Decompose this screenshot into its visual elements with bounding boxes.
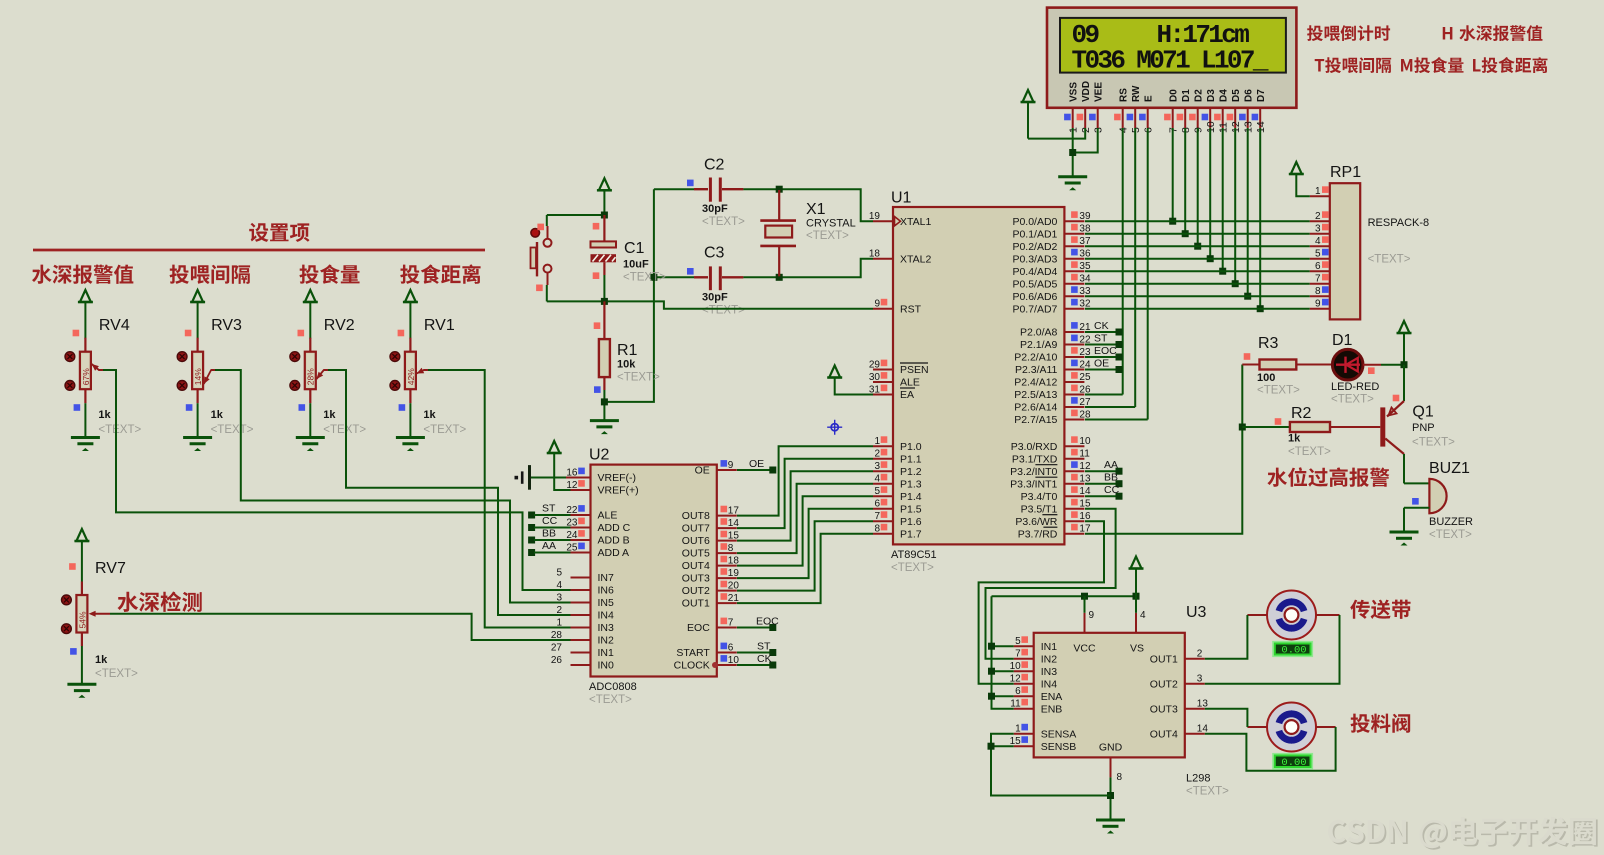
svg-text:ST: ST (1094, 333, 1108, 345)
net terminal ST at U2 (737, 641, 776, 657)
svg-text:<TEXT>: <TEXT> (98, 424, 141, 436)
svg-text:XTAL2: XTAL2 (900, 253, 931, 265)
junction bottom rail (601, 298, 608, 305)
wire P0.2 to RP1 pin 4 (1085, 245, 1310, 247)
svg-text:<TEXT>: <TEXT> (806, 230, 849, 242)
LCD text line 1 (1072, 20, 1250, 50)
svg-text:10: 10 (1079, 436, 1091, 447)
svg-text:P0.2/AD2: P0.2/AD2 (1012, 241, 1057, 253)
svg-text:AT89C51: AT89C51 (891, 549, 937, 561)
net terminal CK at U1 (1085, 320, 1123, 336)
wire P0.4 to RP1 pin 6 (1085, 270, 1310, 272)
buzzer BUZ1 (1404, 460, 1473, 541)
svg-text:RV2: RV2 (324, 317, 355, 334)
LCD display LCD1 body (1047, 8, 1296, 108)
wire VEE to ground (1073, 128, 1098, 153)
U2 pin 12 VREF(+) (566, 480, 638, 497)
LCD pin 5 RW (1127, 85, 1142, 133)
svg-text:11: 11 (1079, 449, 1090, 460)
svg-text:C3: C3 (704, 245, 725, 262)
svg-text:ADD A: ADD A (598, 547, 630, 559)
svg-text:OE: OE (695, 465, 710, 477)
U2 pin 2 IN4 (556, 605, 614, 622)
U3 pin 2 OUT1 (1150, 649, 1205, 666)
U1 pin 26 P2.5/A13 (1014, 385, 1091, 402)
net terminal AA at U2 (528, 540, 570, 556)
svg-text:OUT3: OUT3 (1150, 703, 1178, 715)
net terminal OE at U2 (737, 458, 776, 474)
U3 pin 7 IN2 (1014, 649, 1057, 666)
potentiometer RV3 (177, 290, 254, 451)
net terminal BB at U1 (1085, 472, 1123, 488)
svg-text:D0: D0 (1168, 89, 1179, 102)
U1 pin 18 XTAL2 (869, 249, 932, 266)
svg-text:PSEN: PSEN (900, 364, 929, 376)
push button reset (531, 215, 552, 301)
svg-text:P0.4/AD4: P0.4/AD4 (1012, 266, 1057, 278)
svg-text:5: 5 (1015, 636, 1021, 647)
svg-text:OUT4: OUT4 (1150, 728, 1178, 740)
svg-text:VS: VS (1130, 643, 1144, 655)
LCD pin 8 D1 (1177, 89, 1192, 133)
svg-text:D4: D4 (1218, 89, 1229, 102)
ground under U3 (1096, 820, 1125, 834)
crystal X1 (760, 190, 855, 276)
svg-text:1k: 1k (1288, 433, 1301, 445)
wire C2 C3 common to ground (604, 189, 654, 402)
net terminal EOC at U2 (737, 616, 779, 632)
wire OUT3 to P1.5 (737, 509, 873, 578)
svg-text:P2.6/A14: P2.6/A14 (1014, 402, 1057, 414)
svg-text:9: 9 (1315, 299, 1321, 310)
svg-text:EOC: EOC (687, 622, 710, 634)
svg-text:28%: 28% (306, 368, 316, 385)
svg-text:R3: R3 (1258, 335, 1279, 352)
svg-text:25: 25 (1079, 372, 1091, 383)
svg-text:67%: 67% (81, 368, 91, 385)
U1 pin 3 P1.2 (873, 461, 922, 478)
RP1 pin 2 (1310, 211, 1330, 222)
U2 pin 4 IN6 (556, 580, 614, 597)
feed valve label red (1351, 714, 1411, 733)
U3 pin 14 OUT4 (1150, 724, 1209, 741)
svg-text:ENA: ENA (1041, 691, 1063, 703)
microcontroller U1 AT89C51 body (891, 190, 1064, 545)
svg-text:P2.1/A9: P2.1/A9 (1020, 339, 1058, 351)
svg-text:<TEXT>: <TEXT> (1186, 786, 1229, 798)
potentiometer RV1 (390, 290, 467, 451)
wire LCD D2 to P0.2 bus (1194, 128, 1201, 250)
U1 pin 34 P0.5/AD5 (1012, 274, 1091, 291)
svg-text:8: 8 (874, 524, 880, 535)
U3 pin 9 VCC (1073, 610, 1096, 655)
LCD annotation M legend (1401, 57, 1463, 73)
svg-text:OUT2: OUT2 (682, 585, 710, 597)
net terminal CC at U1 (1085, 484, 1123, 500)
U2 pin 24 ADD B (566, 530, 629, 547)
svg-text:1k: 1k (98, 409, 111, 421)
U2 pin 20 OUT2 (682, 581, 740, 598)
svg-text:RW: RW (1131, 85, 1142, 102)
U3 pin 8 GND (1099, 742, 1123, 784)
svg-text:<TEXT>: <TEXT> (1288, 446, 1331, 458)
svg-text:RESPACK-8: RESPACK-8 (1368, 217, 1430, 229)
U1 pin 28 P2.7/A15 (1014, 410, 1091, 427)
LCD text line 2 (1072, 46, 1269, 76)
water depth sense label (117, 591, 201, 611)
svg-text:VCC: VCC (1073, 643, 1096, 655)
svg-text:IN2: IN2 (598, 635, 615, 647)
wire P0.5 to RP1 pin 7 (1085, 283, 1310, 285)
wire C3 to XTAL2 (743, 259, 873, 278)
display M1 speed (1273, 642, 1312, 657)
svg-text:P1.5: P1.5 (900, 503, 922, 515)
wire P0.0 to RP1 pin 2 (1085, 220, 1310, 222)
svg-text:5: 5 (556, 568, 562, 579)
svg-text:2: 2 (1197, 649, 1203, 660)
svg-text:8: 8 (1117, 772, 1123, 783)
svg-text:D1: D1 (1332, 332, 1353, 349)
svg-text:9: 9 (874, 299, 880, 310)
svg-text:10k: 10k (617, 359, 636, 371)
svg-text:OUT2: OUT2 (1150, 678, 1178, 690)
svg-text:P2.5/A13: P2.5/A13 (1014, 389, 1057, 401)
U3 pin 10 IN3 (1010, 661, 1058, 678)
U1 pin 24 P2.3/A11 (1015, 360, 1091, 377)
U2 pin 9 OE (695, 460, 737, 477)
resistor R3 (1242, 335, 1300, 397)
svg-text:54%: 54% (77, 611, 87, 628)
svg-text:U1: U1 (891, 190, 912, 207)
wire LCD D4 to P0.4 bus (1219, 128, 1226, 275)
svg-text:C2: C2 (704, 157, 725, 174)
RP1 labels (1368, 217, 1430, 266)
svg-text:LED-RED: LED-RED (1331, 381, 1379, 393)
svg-text:OUT3: OUT3 (682, 573, 710, 585)
svg-text:VREF(+): VREF(+) (598, 485, 639, 497)
svg-text:VSS: VSS (1068, 82, 1079, 102)
svg-text:<TEXT>: <TEXT> (1331, 394, 1374, 406)
RP1 pin 3 (1310, 224, 1330, 235)
svg-text:U2: U2 (589, 447, 610, 464)
svg-text:10uF: 10uF (623, 259, 649, 271)
U2 pin 22 ALE (566, 505, 617, 522)
svg-text:P2.3/A11: P2.3/A11 (1015, 364, 1058, 376)
wire D1 to power node (1363, 364, 1404, 366)
wire P0.1 to RP1 pin 3 (1085, 233, 1310, 235)
U2 pin 21 OUT1 (682, 593, 740, 610)
svg-text:START: START (676, 647, 710, 659)
wire OUT8 to P1.0 (737, 446, 873, 515)
net terminal OE at U1 (1085, 358, 1123, 374)
svg-text:P2.4/A12: P2.4/A12 (1014, 377, 1057, 389)
junction GND sense (1107, 792, 1114, 799)
svg-text:8: 8 (728, 543, 734, 554)
svg-text:0.00: 0.00 (1281, 644, 1306, 656)
U1 pin 39 P0.0/AD0 (1012, 211, 1091, 228)
svg-text:E: E (1143, 95, 1154, 102)
svg-text:ADD C: ADD C (598, 522, 631, 534)
svg-text:EOC: EOC (1094, 345, 1117, 357)
U2 pin 17 OUT8 (682, 506, 740, 523)
net terminal AA at U1 (1085, 459, 1123, 475)
junction VS pin (1133, 593, 1140, 613)
svg-text:P0.5/AD5: P0.5/AD5 (1012, 278, 1057, 290)
driver U3 L298 body (1034, 604, 1207, 757)
wire LCD D0 to P0.0 bus (1169, 128, 1176, 225)
power arrow Q1 emitter (1397, 321, 1412, 365)
wire VCC rail to U3 (992, 595, 1137, 597)
U1 pin 15 P3.5/T1 (1021, 499, 1091, 516)
svg-text:OUT6: OUT6 (682, 535, 710, 547)
U2 pin 25 ADD A (566, 543, 629, 560)
svg-text:Q1: Q1 (1412, 404, 1433, 421)
conveyor label red (1350, 600, 1410, 619)
wire VSS to ground (1072, 128, 1074, 177)
svg-text:RV3: RV3 (211, 317, 242, 334)
wire RV4 to IN6 (98, 370, 570, 590)
wire P3.7 to alarm circuit (1085, 365, 1242, 534)
wire U3 GND to ground (1110, 777, 1112, 820)
svg-text:P1.4: P1.4 (900, 491, 922, 503)
svg-text:<TEXT>: <TEXT> (95, 668, 138, 680)
svg-text:<TEXT>: <TEXT> (702, 305, 745, 317)
svg-text:SENSA: SENSA (1041, 728, 1077, 740)
svg-text:IN2: IN2 (1041, 653, 1058, 665)
svg-text:XTAL1: XTAL1 (900, 216, 931, 228)
LCD annotation L legend (1473, 57, 1547, 73)
power arrow VREF+ (547, 441, 571, 490)
svg-text:1k: 1k (211, 409, 224, 421)
svg-text:100: 100 (1257, 372, 1275, 384)
U1 pin 16 P3.6/WR (1015, 511, 1091, 528)
wire P2.6 to LCD RW (1085, 406, 1135, 408)
U2 pin 16 VREF(-) (566, 468, 636, 485)
svg-text:CRYSTAL: CRYSTAL (806, 218, 856, 230)
wire OUT1 to P1.7 (737, 534, 873, 603)
U1 pin 19 XTAL1 (869, 211, 932, 228)
svg-text:D2: D2 (1193, 89, 1204, 102)
svg-text:27: 27 (551, 643, 563, 654)
svg-text:4: 4 (874, 474, 880, 485)
svg-text:BB: BB (1104, 472, 1118, 484)
U2 pin 3 IN5 (556, 593, 614, 610)
capacitor C3 (655, 245, 745, 317)
wire LCD E to U1 P2.7 (1147, 128, 1149, 420)
U1 pin 37 P0.2/AD2 (1012, 236, 1091, 253)
svg-text:P1.2: P1.2 (900, 466, 922, 478)
svg-text:ALE: ALE (598, 510, 618, 522)
LCD annotation T legend (1315, 57, 1391, 73)
wire OUT2 to P1.6 (737, 521, 873, 590)
svg-text:4: 4 (1140, 610, 1146, 621)
LCD pin 3 VEE (1089, 82, 1104, 133)
svg-text:9: 9 (1089, 610, 1095, 621)
svg-text:<TEXT>: <TEXT> (1257, 385, 1300, 397)
LCD annotation H legend (1443, 25, 1543, 41)
svg-text:RV7: RV7 (95, 560, 126, 577)
U2 labels (589, 681, 637, 706)
U3 pin 11 ENB (1010, 699, 1062, 716)
svg-text:C1: C1 (624, 240, 645, 257)
svg-text:OUT8: OUT8 (682, 510, 710, 522)
svg-text:3: 3 (874, 461, 880, 472)
LCD pin 11 D4 (1214, 89, 1229, 133)
U1 pin 13 P3.3/INT1 (1010, 474, 1091, 491)
svg-text:<TEXT>: <TEXT> (617, 372, 660, 384)
svg-text:VEE: VEE (1093, 82, 1104, 102)
wire LCD RW to U1 P2.6 (1134, 128, 1136, 407)
U1 pin 9 RST (873, 299, 922, 316)
U2 pin 28 IN2 (551, 630, 614, 647)
wire LCD D5 to P0.5 bus (1232, 128, 1239, 287)
svg-text:VREF(-): VREF(-) (598, 472, 637, 484)
svg-text:AA: AA (542, 540, 556, 552)
net terminal CK at U2 (737, 653, 776, 669)
svg-text:<TEXT>: <TEXT> (1429, 529, 1472, 541)
svg-text:8: 8 (1315, 286, 1321, 297)
svg-text:1: 1 (1015, 724, 1021, 735)
LED D1 (1296, 332, 1379, 406)
svg-text:P0.1/AD1: P0.1/AD1 (1012, 228, 1057, 240)
svg-text:OUT1: OUT1 (1150, 653, 1178, 665)
svg-text:P1.3: P1.3 (900, 478, 922, 490)
svg-text:BB: BB (542, 528, 556, 540)
power arrow for LCD VDD (1021, 90, 1036, 139)
column label water depth alarm (32, 265, 133, 284)
junction VCC pin (1081, 593, 1088, 613)
svg-text:7: 7 (1015, 649, 1021, 660)
power arrow U3 (1129, 557, 1144, 597)
svg-text:SENSB: SENSB (1041, 741, 1077, 753)
svg-text:<TEXT>: <TEXT> (423, 424, 466, 436)
svg-text:7: 7 (1315, 274, 1321, 285)
wire LCD RS to U1 P2.5 (1122, 128, 1124, 395)
wire RV7 to IN2 water sense (89, 611, 571, 640)
svg-text:30pF: 30pF (702, 203, 728, 215)
svg-text:7: 7 (728, 618, 734, 629)
svg-text:R1: R1 (617, 342, 638, 359)
transistor Q1 PNP (1380, 365, 1455, 484)
U1 pin 21 P2.0/A8 (1020, 322, 1091, 339)
motor feed valve M2 (1247, 703, 1335, 752)
svg-text:P3.3/INT1: P3.3/INT1 (1010, 478, 1057, 490)
U1 pin 5 P1.4 (873, 486, 922, 503)
ADC U2 ADC0808 body (589, 447, 717, 677)
ground under LCD (1058, 177, 1087, 191)
svg-text:3: 3 (1315, 224, 1321, 235)
svg-text:14%: 14% (193, 368, 203, 385)
wire P0.3 to RP1 pin 5 (1085, 258, 1310, 260)
net terminal ST at U1 (1085, 333, 1123, 349)
U1 pin 4 P1.3 (873, 474, 922, 491)
svg-text:6: 6 (874, 499, 880, 510)
alarm label red (1267, 467, 1389, 487)
U2 pin 15 OUT6 (682, 531, 740, 548)
svg-text:D1: D1 (1181, 89, 1192, 102)
svg-text:6: 6 (728, 643, 734, 654)
svg-text:26: 26 (551, 655, 563, 666)
U1 pin 2 P1.1 (873, 449, 922, 466)
svg-text:IN6: IN6 (598, 585, 615, 597)
svg-text:IN1: IN1 (598, 647, 615, 659)
svg-text:2: 2 (1315, 211, 1321, 222)
svg-text:7: 7 (874, 511, 880, 522)
svg-text:R2: R2 (1291, 405, 1312, 422)
svg-text:P1.6: P1.6 (900, 516, 922, 528)
svg-text:EA: EA (900, 389, 914, 401)
resistor pack RP1 RESPACK-8 body (1330, 164, 1361, 319)
svg-text:2: 2 (874, 449, 880, 460)
junction C3 left (650, 274, 657, 281)
svg-text:<TEXT>: <TEXT> (1412, 437, 1455, 449)
svg-text:D5: D5 (1231, 89, 1242, 102)
svg-text:CK: CK (1094, 320, 1109, 332)
svg-text:ST: ST (757, 641, 771, 653)
net terminal CC at U2 (528, 515, 570, 531)
svg-text:OUT4: OUT4 (682, 560, 710, 572)
svg-text:OE: OE (749, 458, 764, 470)
svg-text:IN4: IN4 (598, 610, 615, 622)
display M2 speed (1273, 754, 1312, 769)
U3 pin 15 SENSB (1010, 736, 1077, 753)
svg-text:RV1: RV1 (424, 317, 455, 334)
svg-text:X1: X1 (806, 201, 826, 218)
net terminal ST at U2 (528, 503, 570, 519)
LCD pin 10 D3 (1202, 89, 1217, 133)
net terminal BB at U2 (528, 528, 570, 544)
wire top rail reset (547, 214, 605, 216)
settings underline (33, 249, 485, 252)
svg-text:P0.7/AD7: P0.7/AD7 (1012, 303, 1057, 315)
svg-text:1k: 1k (95, 654, 108, 666)
svg-text:P3.0/RXD: P3.0/RXD (1011, 441, 1058, 453)
ground under buzzer (1390, 532, 1419, 546)
wire RV1 to IN3 (423, 370, 570, 628)
U1 pin 27 P2.6/A14 (1014, 397, 1091, 414)
capacitor C2 (654, 157, 745, 229)
RP1 pin 4 (1310, 236, 1330, 247)
wire P0.7 to RP1 pin 9 (1085, 308, 1310, 310)
svg-text:IN3: IN3 (598, 622, 615, 634)
junction C3 crystal (776, 274, 783, 281)
svg-text:L298: L298 (1186, 773, 1210, 785)
wire VDD to power (1028, 128, 1085, 139)
wire VCC rail to enable pins (988, 596, 1014, 709)
wire bottom rail to RST (547, 301, 873, 308)
svg-text:CK: CK (757, 653, 772, 665)
svg-text:1k: 1k (323, 409, 336, 421)
svg-text:<TEXT>: <TEXT> (1368, 254, 1411, 266)
potentiometer RV7 (62, 529, 139, 698)
U3 pin 3 OUT2 (1150, 674, 1205, 691)
svg-text:1: 1 (874, 436, 880, 447)
wire LCD D3 to P0.3 bus (1207, 128, 1214, 262)
wire LCD D7 to P0.7 bus (1257, 128, 1264, 312)
svg-text:IN1: IN1 (1041, 641, 1058, 653)
svg-text:P3.2/INT0: P3.2/INT0 (1010, 466, 1057, 478)
RP1 pin 7 (1310, 274, 1330, 285)
svg-text:IN7: IN7 (598, 572, 615, 584)
svg-text:5: 5 (1315, 249, 1321, 260)
ground under R1 (590, 421, 619, 435)
svg-text:CLOCK: CLOCK (674, 660, 710, 672)
svg-text:EOC: EOC (756, 616, 779, 628)
LCD pin 12 D5 (1227, 89, 1242, 133)
resistor R1 (594, 301, 660, 420)
svg-text:1k: 1k (423, 409, 436, 421)
U1 labels (891, 549, 937, 574)
